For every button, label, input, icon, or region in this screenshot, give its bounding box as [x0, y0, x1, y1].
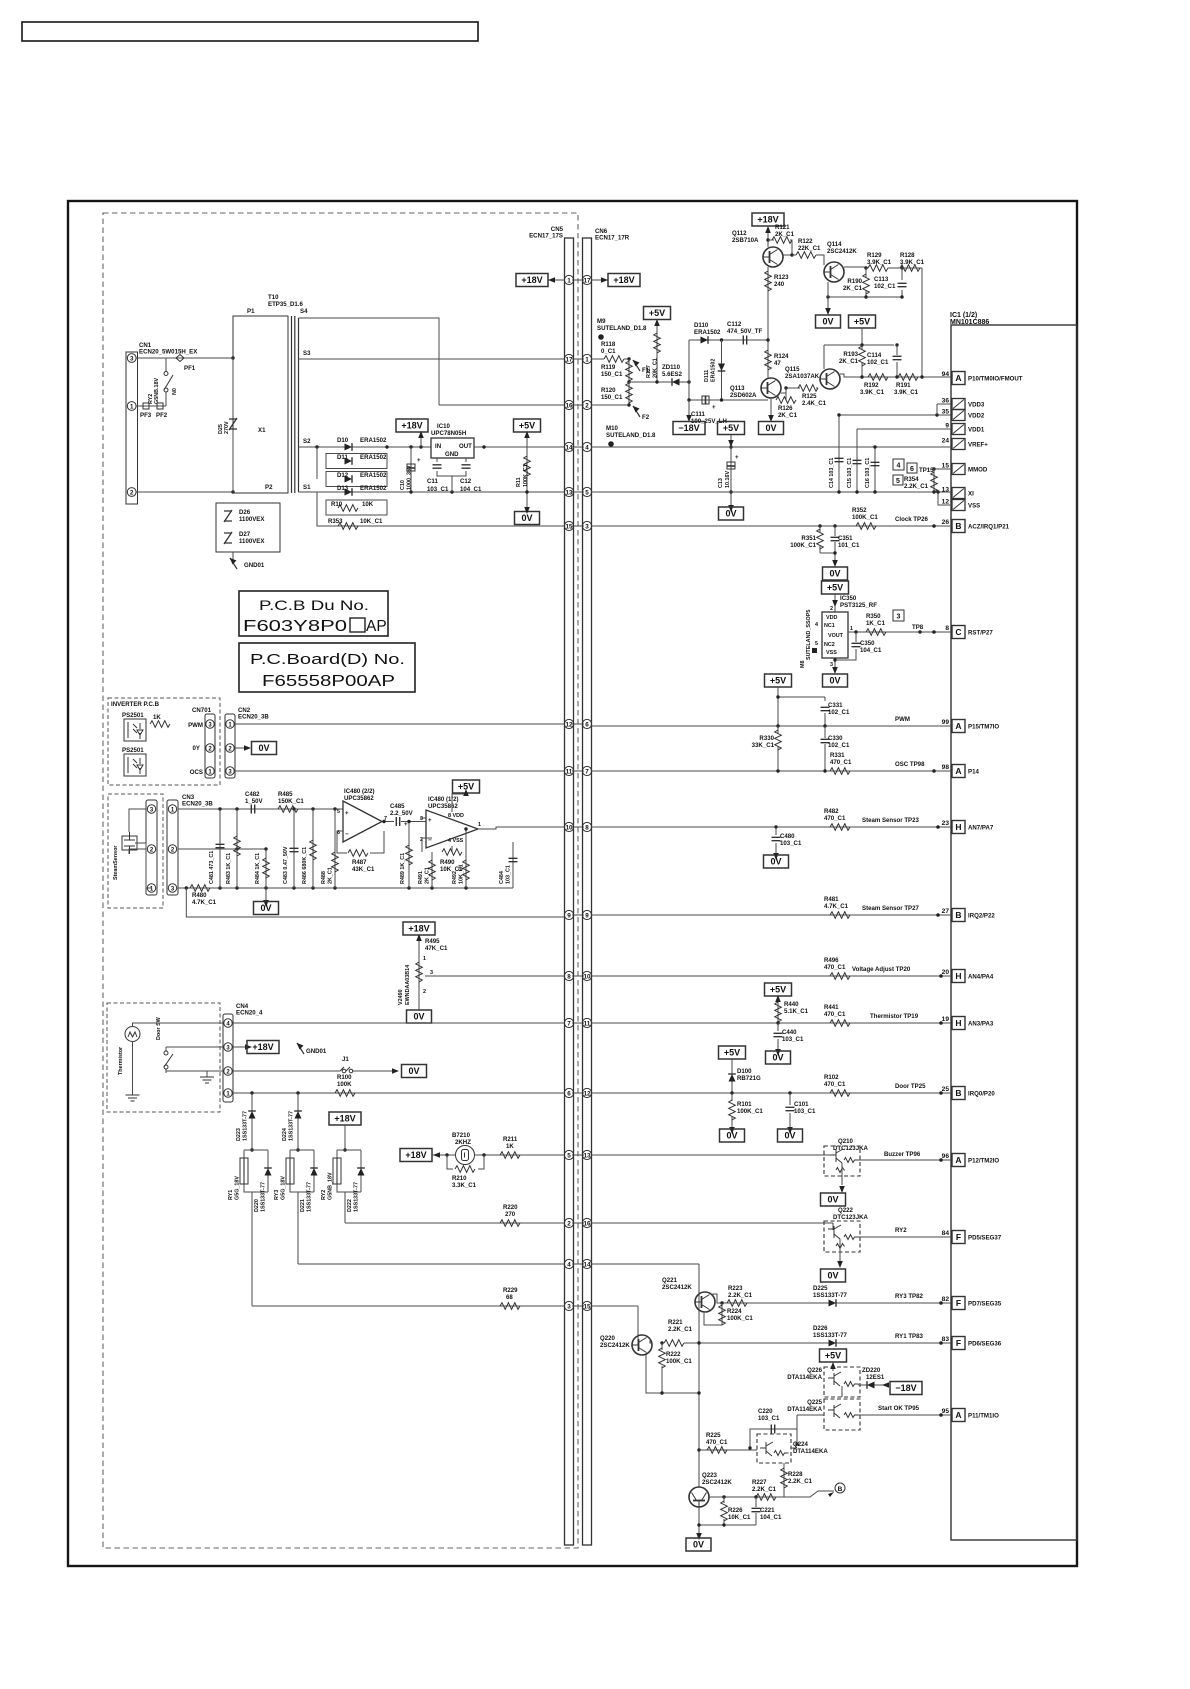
svg-text:5.1K_C1: 5.1K_C1 — [784, 1008, 809, 1015]
capacitor C112 474_50V_TF — [743, 336, 746, 345]
svg-text:470_C1: 470_C1 — [824, 964, 846, 971]
svg-text:R224: R224 — [727, 1308, 742, 1315]
resistor R222 100K_C1 — [660, 1341, 663, 1344]
svg-text:VSS: VSS — [968, 503, 980, 510]
transistor Q113 2SD602A — [761, 378, 781, 398]
svg-text:0_C1: 0_C1 — [601, 348, 616, 355]
svg-text:D223: D223 — [236, 1128, 242, 1141]
svg-text:PS2501: PS2501 — [122, 747, 144, 754]
transistor Q225 DTA114EKA dashed — [797, 1399, 860, 1444]
svg-text:2K_C1: 2K_C1 — [425, 867, 431, 884]
resistor R118 0_C1 — [604, 356, 624, 363]
wire RY3 to row 4/14 — [298, 1263, 565, 1265]
svg-text:ECN20_3B: ECN20_3B — [238, 714, 269, 721]
diode D225 1SS133T-77 — [829, 1299, 837, 1307]
resistor R227 2.2K_C1 — [756, 1494, 776, 1501]
resistor R221 2.2K_C1 — [664, 1340, 684, 1347]
fuse F1 — [633, 360, 640, 371]
capacitor C484 103_C1 — [512, 842, 514, 888]
connector CN1 — [126, 352, 138, 504]
svg-text:DTA114EKA: DTA114EKA — [787, 1374, 822, 1381]
svg-text:H: H — [955, 971, 961, 981]
svg-text:R330: R330 — [759, 735, 774, 742]
svg-text:R210: R210 — [452, 1175, 467, 1182]
svg-text:12: 12 — [565, 721, 573, 728]
wire VDD1 row — [857, 428, 951, 430]
svg-text:R225: R225 — [706, 1432, 721, 1439]
wires sensor — [129, 809, 151, 888]
net M8 dot — [812, 648, 817, 653]
svg-text:C484: C484 — [499, 871, 505, 884]
svg-text:10.16V: 10.16V — [725, 471, 731, 488]
svg-text:D224: D224 — [282, 1128, 288, 1141]
svg-text:C10: C10 — [400, 480, 406, 490]
diode D12 ERA1502 — [345, 475, 353, 483]
wire to F1 node — [624, 358, 629, 360]
svg-text:16: 16 — [565, 402, 573, 409]
fuse PF2 — [157, 403, 163, 409]
svg-text:D111: D111 — [704, 370, 710, 382]
svg-text:GND01: GND01 — [244, 562, 265, 569]
svg-text:13: 13 — [583, 1152, 591, 1159]
resistor R125 2.4K_C1 — [798, 385, 818, 392]
power 0V ladder — [265, 888, 267, 902]
svg-text:99: 99 — [942, 719, 950, 726]
svg-text:9: 9 — [945, 423, 949, 430]
svg-text:VREF+: VREF+ — [968, 442, 988, 449]
svg-text:Q225: Q225 — [807, 1399, 823, 1406]
svg-text:AN7/PA7: AN7/PA7 — [968, 825, 994, 832]
IC1 pin boxes — [942, 371, 1023, 385]
svg-text:2KHZ: 2KHZ — [455, 1139, 471, 1146]
wire loop R10 — [326, 500, 387, 515]
resistor R223 2.2K_C1 — [727, 1300, 747, 1307]
svg-text:R192: R192 — [864, 382, 879, 389]
svg-text:C13: C13 — [718, 478, 724, 488]
thermistor dashed box — [107, 1003, 220, 1112]
svg-text:7: 7 — [567, 1020, 571, 1027]
wire row TP27 from rail — [186, 888, 564, 917]
transistor Q221 2SC2412K — [695, 1292, 715, 1312]
outer schematic border — [68, 201, 1077, 1566]
svg-text:V2490: V2490 — [398, 989, 404, 1005]
svg-text:H: H — [955, 822, 961, 832]
svg-text:B: B — [838, 1486, 843, 1493]
svg-text:2K_C1: 2K_C1 — [775, 231, 795, 238]
sensor connector — [146, 800, 157, 895]
resistor R354 2.2K_C1 — [933, 469, 935, 492]
wire CN3 row1 rail — [178, 808, 344, 810]
wire steam row 10/8 to IC pin23 — [592, 826, 952, 828]
svg-text:VDD3: VDD3 — [968, 402, 985, 409]
wire VDD2 row — [839, 414, 951, 416]
svg-text:M9: M9 — [597, 318, 606, 325]
wire CN1-3 to T10 P1 — [136, 357, 233, 359]
diode D10 ERA1502 — [345, 443, 353, 451]
svg-text:OSC TP98: OSC TP98 — [895, 761, 925, 768]
svg-text:3.9K_C1: 3.9K_C1 — [900, 259, 925, 266]
resistor R481 4.7K_C1 — [830, 912, 850, 919]
svg-text:2.2K_C1: 2.2K_C1 — [752, 1486, 777, 1493]
svg-text:A: A — [955, 766, 961, 776]
svg-text:470_C1: 470_C1 — [824, 1081, 846, 1088]
wire loop D11 — [326, 454, 387, 469]
svg-text:2SC2412K: 2SC2412K — [702, 1479, 732, 1486]
wire thermistor row 7/11 to IC pin19 — [592, 1022, 952, 1024]
wire to 0V — [820, 547, 835, 561]
svg-text:5.6ES2: 5.6ES2 — [662, 371, 683, 378]
svg-text:1000_35V: 1000_35V — [407, 465, 413, 490]
svg-text:1: 1 — [130, 403, 134, 410]
transistor Q115 2SA1037AK — [820, 369, 840, 389]
wire CN3 row3 rail — [178, 887, 514, 889]
power +18V top — [752, 213, 784, 226]
svg-text:4.7K_C1: 4.7K_C1 — [192, 899, 217, 906]
svg-text:20: 20 — [942, 969, 950, 976]
svg-text:Clock TP26: Clock TP26 — [895, 516, 928, 523]
svg-text:3: 3 — [567, 1303, 571, 1310]
svg-text:B: B — [955, 1088, 961, 1098]
regulator IC10 UPC78N05H — [431, 438, 474, 458]
wire row 4/14 to Q221 base — [592, 1264, 700, 1487]
power +5V door — [719, 1046, 746, 1059]
svg-text:100K_C1: 100K_C1 — [523, 464, 529, 487]
svg-text:D12: D12 — [337, 472, 349, 479]
svg-text:ERA1502: ERA1502 — [694, 329, 721, 336]
svg-text:Q220: Q220 — [600, 1335, 616, 1342]
svg-text:NC2: NC2 — [824, 642, 835, 648]
svg-text:ECN20_4: ECN20_4 — [236, 1010, 263, 1017]
svg-text:17: 17 — [583, 277, 591, 284]
wire Q115 emitter/base link — [816, 388, 830, 389]
svg-text:1SS133T-77: 1SS133T-77 — [289, 1111, 295, 1141]
svg-text:8: 8 — [585, 824, 589, 831]
svg-text:2: 2 — [585, 402, 589, 409]
svg-text:47K_C1: 47K_C1 — [425, 945, 448, 952]
svg-text:R122: R122 — [798, 238, 813, 245]
svg-text:R223: R223 — [728, 1285, 743, 1292]
capacitor C13 10.16V — [730, 447, 732, 492]
transistor Q226 DTA114EKA dashed — [832, 1362, 834, 1371]
svg-text:10: 10 — [583, 973, 591, 980]
resistor R10 10K — [338, 505, 358, 512]
svg-text:D220: D220 — [254, 1199, 260, 1212]
svg-text:12: 12 — [942, 499, 950, 506]
wire to GND01 — [232, 552, 234, 560]
svg-text:G5G_18V: G5G_18V — [281, 1176, 287, 1200]
wire VSS to 0V — [834, 658, 836, 668]
svg-text:104_C1: 104_C1 — [860, 647, 882, 654]
svg-text:H: H — [955, 1018, 961, 1028]
svg-text:PF2: PF2 — [156, 412, 168, 419]
resistor R441 470_C1 — [830, 1020, 850, 1027]
svg-text:DTA114EKA: DTA114EKA — [793, 1448, 828, 1455]
svg-text:Q114: Q114 — [827, 241, 842, 248]
svg-text:Q115: Q115 — [785, 366, 800, 373]
svg-text:C15 103_C1: C15 103_C1 — [847, 458, 853, 488]
svg-text:F2: F2 — [642, 414, 650, 421]
resistor R129 3.9K_C1 — [866, 267, 868, 269]
resistor R123 240 — [765, 271, 772, 291]
transistor Q223 2SC2412K — [689, 1487, 709, 1507]
capacitor C440 103_C1 — [777, 1023, 779, 1051]
svg-text:GND: GND — [445, 451, 459, 458]
svg-text:270: 270 — [505, 1211, 516, 1218]
power 0V bottom — [686, 1538, 711, 1551]
svg-text:IN: IN — [435, 443, 441, 450]
resistor R224 100K_C1 — [720, 1301, 723, 1304]
resistor R330 33K_C1 — [777, 726, 779, 771]
resistor R491 2K_C1 — [429, 860, 436, 880]
svg-text:VOUT: VOUT — [828, 633, 844, 639]
resistor R226 10K_C1 — [722, 1495, 725, 1498]
svg-text:83: 83 — [942, 1336, 950, 1343]
svg-text:2SC2412K: 2SC2412K — [662, 1284, 692, 1291]
svg-text:+: + — [735, 454, 739, 461]
capacitor C14 103_C1 — [838, 415, 840, 492]
svg-text:PD7/SEG35: PD7/SEG35 — [968, 1301, 1002, 1308]
svg-text:RY3: RY3 — [274, 1190, 280, 1200]
capacitor C10 1000_35V — [410, 447, 412, 492]
connector CN5 strip — [565, 238, 574, 1545]
wire voltage row 8/10 to IC pin20 — [592, 975, 952, 977]
surge absorber D25 — [229, 418, 237, 430]
svg-text:R11: R11 — [516, 477, 522, 487]
svg-text:R125: R125 — [802, 393, 817, 400]
svg-text:3: 3 — [430, 970, 433, 976]
svg-text:14: 14 — [565, 444, 573, 451]
wire Q224 out — [791, 1447, 797, 1449]
svg-text:AN3/PA3: AN3/PA3 — [968, 1021, 994, 1028]
wire S3 tap to bus — [299, 358, 565, 360]
svg-text:SteamSensor: SteamSensor — [113, 845, 119, 880]
svg-text:IC10: IC10 — [437, 423, 450, 430]
svg-text:470_C1: 470_C1 — [830, 759, 852, 766]
svg-text:B7210: B7210 — [452, 1132, 471, 1139]
svg-text:G5NB.18V: G5NB.18V — [154, 378, 160, 404]
svg-text:Thermistor TP19: Thermistor TP19 — [870, 1013, 919, 1020]
svg-text:R480: R480 — [192, 892, 207, 899]
svg-text:4: 4 — [897, 463, 901, 470]
wire row 3/15 to Q220 base — [592, 1306, 639, 1345]
svg-text:R191: R191 — [896, 382, 911, 389]
svg-text:98: 98 — [942, 764, 950, 771]
svg-text:J1: J1 — [342, 1056, 349, 1063]
svg-text:R351: R351 — [801, 535, 816, 542]
svg-text:+: + — [345, 810, 349, 817]
svg-text:R489 1K_C1: R489 1K_C1 — [400, 853, 406, 884]
svg-text:R486 680K_C1: R486 680K_C1 — [302, 847, 308, 884]
node R351 C351 — [818, 524, 821, 527]
svg-text:2SC2412K: 2SC2412K — [600, 1342, 630, 1349]
svg-text:104_C1: 104_C1 — [460, 486, 482, 493]
nodes on bottom rail — [185, 886, 188, 889]
svg-text:S4: S4 — [300, 308, 308, 315]
svg-text:13: 13 — [565, 489, 573, 496]
wire R190/C113 bottom rail — [828, 296, 902, 298]
svg-text:1SS133T-77: 1SS133T-77 — [354, 1182, 360, 1212]
resistor R191 3.9K_C1 — [898, 374, 918, 381]
capacitor C330 102_C1 — [824, 726, 826, 771]
svg-text:1100VEX: 1100VEX — [239, 538, 265, 545]
wire Q113 base row — [781, 388, 800, 393]
svg-text:470_C1: 470_C1 — [824, 815, 846, 822]
svg-text:OUT: OUT — [459, 443, 472, 450]
resistor R119 150_C1 — [628, 359, 630, 382]
svg-text:F603Y8P0: F603Y8P0 — [243, 618, 348, 635]
svg-text:ERA1502: ERA1502 — [360, 485, 387, 492]
svg-text:C112: C112 — [727, 321, 742, 328]
svg-text:R492: R492 — [452, 871, 458, 884]
nodes on top rail — [218, 807, 221, 810]
svg-text:3: 3 — [585, 523, 589, 530]
svg-text:14: 14 — [583, 1261, 591, 1268]
wire opamp1 minus loop — [337, 822, 394, 854]
wire +5V to PWM row — [778, 687, 810, 726]
wire row 14/4 to IC — [592, 446, 952, 448]
svg-text:+: + — [417, 457, 421, 464]
svg-text:PF1: PF1 — [184, 365, 196, 372]
svg-text:ERA1502: ERA1502 — [711, 359, 717, 382]
svg-text:2SC2412K: 2SC2412K — [827, 248, 857, 255]
svg-text:5: 5 — [585, 489, 589, 496]
diode D100 RB721G — [731, 1059, 733, 1093]
svg-text:R100: R100 — [337, 1074, 352, 1081]
svg-text:UPC35862: UPC35862 — [428, 803, 458, 810]
label box P.C.B Du No. — [239, 591, 388, 636]
svg-text:PS2501: PS2501 — [122, 712, 144, 719]
node after D10 — [385, 445, 388, 448]
power +5V — [514, 419, 541, 432]
svg-text:PWM: PWM — [188, 722, 203, 729]
svg-text:R120: R120 — [601, 387, 616, 394]
svg-text:ERA1502: ERA1502 — [360, 437, 387, 444]
svg-text:R228: R228 — [788, 1471, 803, 1478]
svg-text:101_C1: 101_C1 — [838, 542, 860, 549]
svg-text:10K_C1: 10K_C1 — [728, 1514, 751, 1521]
svg-text:47: 47 — [774, 360, 781, 367]
wire Q221 collector RY3 row — [713, 1294, 951, 1303]
svg-text:D27: D27 — [239, 531, 251, 538]
svg-text:R126: R126 — [778, 405, 793, 412]
svg-text:R488: R488 — [321, 871, 327, 884]
svg-text:VDD1: VDD1 — [968, 427, 985, 434]
svg-text:103_C1: 103_C1 — [780, 840, 802, 847]
svg-text:5: 5 — [337, 809, 340, 815]
nodes on mid row — [235, 847, 238, 850]
svg-text:C330: C330 — [828, 735, 843, 742]
svg-text:IC350: IC350 — [840, 595, 857, 602]
svg-text:−: − — [345, 831, 349, 838]
wire Q114 emitter down — [827, 282, 829, 310]
capacitor C101 103_C1 — [789, 1093, 791, 1129]
node S2 junction — [315, 445, 318, 448]
svg-text:MMOD: MMOD — [968, 467, 988, 474]
power +5V thermistor — [765, 983, 792, 996]
boxed label 4 — [893, 459, 904, 470]
svg-text:RY2: RY2 — [895, 1227, 907, 1234]
svg-text:EWNDAA03B14: EWNDAA03B14 — [405, 965, 411, 1005]
wire arrow to +18V — [420, 436, 422, 447]
svg-text:OCS: OCS — [190, 769, 203, 776]
surge absorber D27 — [224, 532, 232, 544]
relay RY3 G5G.18V with diode D221 — [274, 1148, 318, 1264]
wire IC10 gnd — [451, 476, 453, 492]
svg-text:F: F — [956, 1338, 961, 1348]
svg-text:R496: R496 — [824, 957, 839, 964]
svg-text:Q223: Q223 — [702, 1472, 718, 1479]
svg-text:A: A — [955, 373, 961, 383]
svg-text:Q222: Q222 — [838, 1207, 854, 1214]
svg-text:R229: R229 — [503, 1287, 518, 1294]
wire CN1-1 row — [136, 405, 166, 407]
svg-text:RY3 TP82: RY3 TP82 — [895, 1293, 923, 1300]
wire CN1-2 to T10 P2 — [136, 491, 233, 493]
svg-text:8: 8 — [567, 973, 571, 980]
svg-text:2SA1037AK: 2SA1037AK — [785, 373, 820, 380]
node C10 bottom — [409, 490, 412, 493]
power 0V — [252, 742, 277, 755]
resistor R225 470_C1 — [707, 1447, 727, 1454]
svg-text:AN4/PA4: AN4/PA4 — [968, 974, 994, 981]
transistor Q112 2SB710A — [763, 247, 783, 267]
svg-text:B: B — [955, 521, 961, 531]
resistor R122 22K_C1 — [792, 254, 796, 256]
svg-text:P.C.Board(D) No.: P.C.Board(D) No. — [250, 652, 405, 668]
wire IC10 out — [474, 446, 565, 448]
svg-text:1: 1 — [567, 277, 571, 284]
svg-text:36: 36 — [942, 398, 950, 405]
svg-text:R487: R487 — [352, 859, 367, 866]
diode D110 ERA1502 — [689, 339, 768, 341]
wire +5V down — [861, 328, 863, 345]
svg-text:1SS133T-77: 1SS133T-77 — [307, 1182, 313, 1212]
transformer T10 primary box — [233, 316, 288, 493]
svg-text:P1: P1 — [247, 308, 255, 315]
svg-text:4: 4 — [567, 1261, 571, 1268]
svg-text:D10: D10 — [337, 437, 349, 444]
capacitor C481 473_C1 — [219, 809, 221, 888]
capacitor C114 102_C1 — [824, 345, 897, 377]
capacitor C480 103_C1 — [774, 825, 777, 828]
svg-text:D11: D11 — [337, 454, 348, 461]
resistor R485 150K_C1 — [278, 806, 298, 813]
transistor Q220 2SC2412K — [632, 1335, 652, 1355]
svg-text:D225: D225 — [813, 1285, 828, 1292]
svg-text:ERA1502: ERA1502 — [360, 454, 387, 461]
power +18V rectifier — [396, 419, 428, 432]
resistor R353 10K_C1 — [338, 523, 358, 530]
transformer core — [292, 316, 295, 493]
capacitor C12 104_C1 — [452, 458, 466, 476]
svg-text:10K: 10K — [362, 501, 374, 508]
svg-text:8: 8 — [945, 625, 949, 632]
sensor element — [122, 832, 137, 854]
svg-text:R441: R441 — [824, 1004, 839, 1011]
svg-text:+: + — [712, 404, 716, 411]
svg-text:A: A — [955, 1410, 961, 1420]
svg-text:R481: R481 — [824, 896, 839, 903]
resistor R440 5.1K_C1 — [777, 996, 779, 1023]
diode D223 1SS133T-77 — [251, 1093, 253, 1150]
svg-text:3.9K_C1: 3.9K_C1 — [867, 259, 892, 266]
svg-text:35: 35 — [942, 409, 950, 416]
svg-text:R495: R495 — [425, 938, 440, 945]
svg-text:2K_C1: 2K_C1 — [778, 412, 798, 419]
capacitor C482 1_50V — [251, 805, 254, 814]
transformer secondary bar — [298, 318, 300, 492]
svg-text:R350: R350 — [866, 613, 881, 620]
